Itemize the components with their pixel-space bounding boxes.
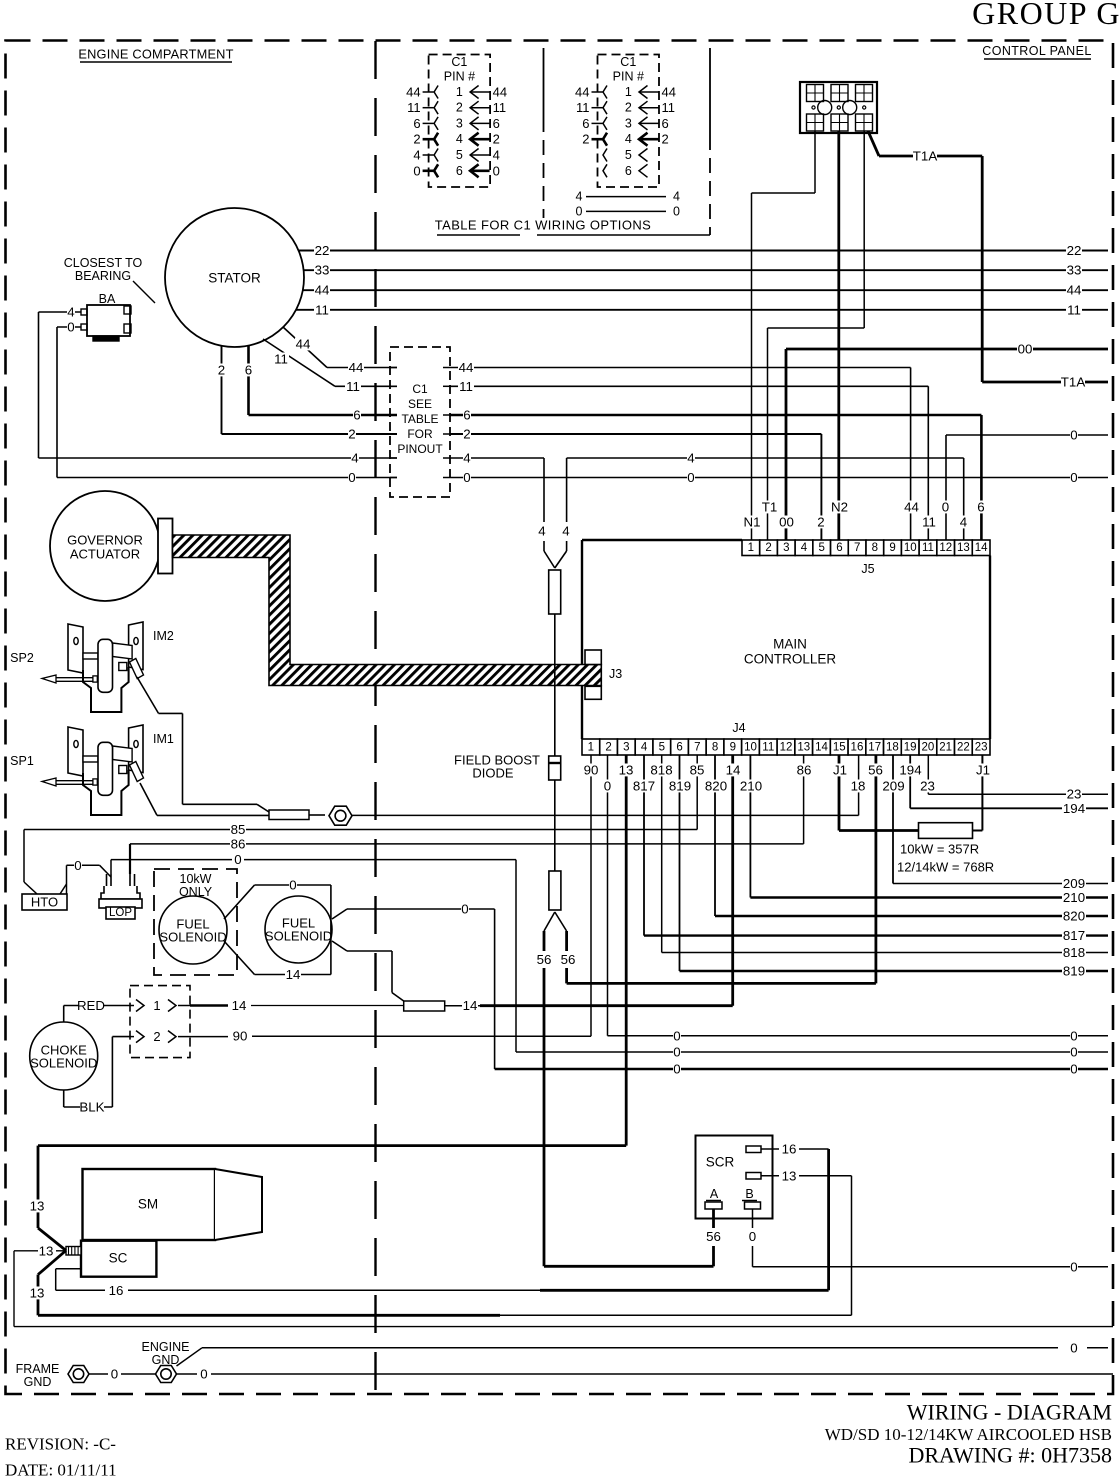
wire 33 stator to control panel <box>304 263 1108 278</box>
svg-text:4: 4 <box>562 524 569 539</box>
svg-text:5: 5 <box>456 148 463 162</box>
svg-text:44: 44 <box>575 85 589 100</box>
wire 0 SCR B to right edge <box>749 1209 1109 1274</box>
wire 6 stator <box>245 346 398 423</box>
svg-text:2: 2 <box>463 427 470 442</box>
svg-text:2: 2 <box>153 1029 160 1044</box>
wire IM2 lead <box>137 677 269 812</box>
starter contactor SC <box>81 1241 156 1277</box>
svg-text:12/14kW = 768R: 12/14kW = 768R <box>897 860 994 875</box>
wire 44 stator diagonal <box>283 327 397 375</box>
fuse F2 field boost lower <box>544 871 567 931</box>
svg-text:14: 14 <box>286 967 301 982</box>
svg-text:11: 11 <box>459 379 473 394</box>
svg-text:BLK: BLK <box>79 1100 104 1115</box>
svg-text:SP2: SP2 <box>10 651 34 665</box>
svg-text:4: 4 <box>456 132 463 146</box>
svg-text:1: 1 <box>456 85 463 99</box>
svg-text:PIN #: PIN # <box>613 70 644 84</box>
svg-text:12: 12 <box>780 742 793 754</box>
svg-text:44: 44 <box>296 337 311 352</box>
field boost diode D1 <box>454 753 561 872</box>
wire 11 stator to control panel <box>296 302 1108 317</box>
svg-text:14: 14 <box>463 998 478 1013</box>
wire 85 drop to HTO <box>24 830 37 895</box>
connector J5 pin row <box>742 540 990 576</box>
svg-text:GND: GND <box>24 1375 52 1389</box>
svg-text:2: 2 <box>662 132 669 147</box>
svg-text:1: 1 <box>588 742 594 754</box>
svg-text:90: 90 <box>584 763 599 778</box>
wire 22 stator to control panel <box>299 243 1108 258</box>
svg-text:209: 209 <box>882 779 904 794</box>
svg-text:11: 11 <box>315 302 329 317</box>
wire 0 frame-engine gnd <box>89 1367 156 1382</box>
svg-text:4: 4 <box>463 451 470 466</box>
svg-text:210: 210 <box>1063 890 1085 905</box>
svg-text:4: 4 <box>67 305 74 320</box>
wire 4 bypass (option 2) <box>575 190 680 204</box>
svg-text:11: 11 <box>274 352 288 367</box>
connector table C1 option 1 <box>405 55 508 188</box>
wire 0 to middle 0 line <box>516 860 1108 1060</box>
svg-text:86: 86 <box>797 763 812 778</box>
wire 90 choke pin2 <box>190 1036 228 1038</box>
svg-text:GOVERNOR: GOVERNOR <box>67 533 143 548</box>
svg-text:13: 13 <box>797 742 810 754</box>
svg-text:44: 44 <box>315 283 330 298</box>
wire 11 C1 to J5-11 <box>450 379 937 540</box>
svg-text:6: 6 <box>245 363 252 378</box>
svg-text:A: A <box>710 1187 719 1201</box>
svg-text:20: 20 <box>922 742 935 754</box>
svg-text:0: 0 <box>1070 470 1077 485</box>
svg-text:2: 2 <box>493 132 500 147</box>
svg-text:18: 18 <box>886 742 899 754</box>
svg-text:4: 4 <box>538 524 545 539</box>
svg-text:820: 820 <box>705 779 727 794</box>
svg-text:GROUP G: GROUP G <box>972 0 1120 31</box>
svg-text:J5: J5 <box>861 562 874 576</box>
wire N2 T1A to J5-6 <box>831 131 848 540</box>
svg-text:9: 9 <box>889 542 895 554</box>
svg-text:STATOR: STATOR <box>208 271 261 286</box>
svg-text:ENGINE: ENGINE <box>142 1340 190 1354</box>
svg-text:8: 8 <box>872 542 878 554</box>
wire 819 J4-6 to right edge <box>668 755 1108 979</box>
svg-text:11: 11 <box>922 515 936 530</box>
svg-text:2: 2 <box>413 132 420 147</box>
svg-text:56: 56 <box>537 952 552 967</box>
svg-text:SCR: SCR <box>706 1155 735 1170</box>
svg-text:MAIN: MAIN <box>773 637 807 652</box>
svg-text:00: 00 <box>1018 342 1033 357</box>
svg-text:1: 1 <box>625 85 632 99</box>
svg-text:2: 2 <box>218 363 225 378</box>
svg-text:23: 23 <box>1067 787 1082 802</box>
svg-text:0: 0 <box>576 204 583 218</box>
svg-text:J4: J4 <box>732 721 745 735</box>
hatched harness to J3 <box>173 535 602 686</box>
governor actuator <box>50 491 173 601</box>
svg-text:N2: N2 <box>831 500 848 515</box>
wire J1 J4-15 to resistor <box>832 755 919 831</box>
svg-text:IM2: IM2 <box>153 629 174 643</box>
wire 6 C1 to J5-14 <box>450 408 985 541</box>
stator <box>165 208 304 347</box>
svg-text:SC: SC <box>109 1251 128 1266</box>
svg-text:11: 11 <box>407 100 421 115</box>
svg-text:T1A: T1A <box>1061 375 1086 390</box>
connector C1 (see table for pinout) <box>390 347 450 497</box>
wire 4 C1 to field boost and J5-13 <box>450 451 968 541</box>
SCR module <box>696 1136 773 1219</box>
svg-text:10kW: 10kW <box>180 872 212 886</box>
svg-text:4: 4 <box>673 190 680 204</box>
svg-text:T1A: T1A <box>913 149 938 164</box>
ignition module IM1 <box>10 725 174 815</box>
svg-text:0: 0 <box>493 163 500 178</box>
svg-text:SM: SM <box>138 1197 158 1212</box>
wire N1 T1A to J5-1 <box>744 131 816 540</box>
connector table C1 option 2 <box>574 55 677 188</box>
svg-text:4: 4 <box>687 451 694 466</box>
svg-text:10kW = 357R: 10kW = 357R <box>900 842 979 857</box>
10kW only dashed box <box>154 869 237 975</box>
svg-text:14: 14 <box>975 542 988 554</box>
svg-text:J3: J3 <box>609 667 622 681</box>
svg-text:5: 5 <box>625 148 632 162</box>
svg-text:4: 4 <box>960 515 967 530</box>
svg-text:0: 0 <box>234 852 241 867</box>
svg-text:WIRING - DIAGRAM: WIRING - DIAGRAM <box>907 1400 1112 1425</box>
svg-text:194: 194 <box>1063 801 1085 816</box>
wire 4 pair to field boost <box>538 458 570 568</box>
connector block T1A <box>800 82 877 133</box>
svg-text:RED: RED <box>77 998 105 1013</box>
svg-text:SEE: SEE <box>408 397 432 411</box>
svg-text:0: 0 <box>67 320 74 335</box>
wire IM1 lead <box>140 783 269 815</box>
svg-text:4: 4 <box>493 148 500 163</box>
svg-text:16: 16 <box>109 1283 124 1298</box>
svg-text:33: 33 <box>1067 263 1082 278</box>
wire 13 loop starter <box>29 1146 852 1316</box>
wire 210 J4-10 to right edge <box>739 755 1108 905</box>
table divider left <box>543 48 545 218</box>
connector J4 pin row <box>582 721 990 755</box>
wire 56 to SCR A <box>536 931 714 1266</box>
titleblock revision/date <box>5 1435 117 1477</box>
starter motor SM <box>83 1169 263 1240</box>
svg-text:2: 2 <box>456 101 463 115</box>
svg-text:2: 2 <box>348 427 355 442</box>
svg-text:C1: C1 <box>620 55 636 69</box>
svg-text:819: 819 <box>1063 964 1085 979</box>
svg-text:0: 0 <box>1070 1340 1077 1355</box>
wire 16 SC to SCR <box>56 1269 829 1298</box>
fuse F3 choke/fuel 14 <box>404 1001 445 1011</box>
svg-text:C1: C1 <box>451 55 467 69</box>
svg-text:4: 4 <box>625 132 632 146</box>
svg-text:4: 4 <box>801 542 808 554</box>
svg-text:0: 0 <box>1070 428 1077 443</box>
svg-text:56: 56 <box>868 763 883 778</box>
svg-text:11: 11 <box>493 100 507 115</box>
svg-text:0: 0 <box>673 1029 680 1044</box>
svg-text:SOLENOID: SOLENOID <box>159 930 226 945</box>
wire 0 engine gnd upper to right <box>177 1340 1109 1366</box>
fuse F1 field boost <box>549 570 561 756</box>
svg-text:13: 13 <box>619 763 634 778</box>
wire 2 C1 to J5-5 <box>450 427 825 541</box>
svg-text:10: 10 <box>744 742 757 754</box>
svg-text:CLOSEST TO: CLOSEST TO <box>64 256 143 270</box>
svg-text:17: 17 <box>868 742 881 754</box>
svg-text:0: 0 <box>348 470 355 485</box>
svg-text:11: 11 <box>346 379 360 394</box>
svg-text:44: 44 <box>349 360 364 375</box>
svg-text:FOR: FOR <box>407 427 433 441</box>
svg-text:DRAWING #: 0H7358: DRAWING #: 0H7358 <box>908 1443 1112 1468</box>
svg-text:ACTUATOR: ACTUATOR <box>70 547 140 562</box>
svg-text:4: 4 <box>576 190 583 204</box>
svg-text:44: 44 <box>662 85 676 100</box>
wire 0 engine gnd lower to right <box>177 1367 1114 1382</box>
frame ground <box>16 1362 89 1389</box>
svg-text:J1: J1 <box>976 763 990 778</box>
svg-text:SOLENOID: SOLENOID <box>265 929 332 944</box>
svg-text:44: 44 <box>1067 283 1082 298</box>
svg-text:0: 0 <box>74 858 81 873</box>
svg-text:ENGINE COMPARTMENT: ENGINE COMPARTMENT <box>78 47 233 62</box>
wire 13 J4-3 to starter <box>38 755 634 1146</box>
svg-text:8: 8 <box>712 742 718 754</box>
wire BLK choke <box>64 1037 130 1115</box>
svg-text:2: 2 <box>765 542 771 554</box>
svg-text:85: 85 <box>231 822 246 837</box>
svg-text:3: 3 <box>783 542 789 554</box>
svg-text:13: 13 <box>30 1199 45 1214</box>
svg-text:6: 6 <box>463 408 470 423</box>
svg-text:DATE: 01/11/11: DATE: 01/11/11 <box>5 1461 117 1477</box>
svg-text:IM1: IM1 <box>153 732 174 746</box>
wire 818 J4-5 to right edge <box>650 755 1109 960</box>
wire 0 BA to C1 <box>57 320 397 486</box>
svg-text:16: 16 <box>851 742 864 754</box>
svg-text:T1: T1 <box>762 500 778 515</box>
wire 2 stator <box>218 346 398 442</box>
svg-text:CONTROL PANEL: CONTROL PANEL <box>982 44 1091 58</box>
svg-text:22: 22 <box>315 243 330 258</box>
svg-text:PINOUT: PINOUT <box>397 442 443 456</box>
svg-text:1: 1 <box>748 542 754 554</box>
svg-text:0: 0 <box>687 470 694 485</box>
svg-text:2: 2 <box>582 132 589 147</box>
svg-text:TABLE FOR C1 WIRING OPTIONS: TABLE FOR C1 WIRING OPTIONS <box>435 218 651 233</box>
titleblock WIRING - DIAGRAM <box>825 1400 1112 1468</box>
main controller U1 <box>582 540 990 739</box>
wire 817 J4-4 to right edge <box>632 755 1108 943</box>
svg-text:819: 819 <box>669 779 691 794</box>
wire 13 SC terminal thin <box>14 1244 1113 1327</box>
svg-text:10: 10 <box>904 542 917 554</box>
svg-text:44: 44 <box>493 85 507 100</box>
svg-text:2: 2 <box>817 515 824 530</box>
svg-text:16: 16 <box>782 1142 797 1157</box>
svg-text:19: 19 <box>904 742 917 754</box>
svg-text:HTO: HTO <box>31 895 58 910</box>
svg-text:9: 9 <box>730 742 736 754</box>
svg-text:7: 7 <box>854 542 860 554</box>
svg-text:4: 4 <box>351 451 358 466</box>
svg-text:14: 14 <box>726 763 741 778</box>
svg-text:44: 44 <box>459 360 474 375</box>
svg-text:0: 0 <box>749 1229 756 1244</box>
terminal 13 striped connector <box>66 1247 81 1256</box>
svg-text:6: 6 <box>836 542 842 554</box>
wire 85 J4-7 to HTO <box>24 755 705 837</box>
ignition module IM2 <box>10 622 174 712</box>
svg-text:2: 2 <box>605 742 611 754</box>
svg-text:WD/SD 10-12/14KW AIRCOOLED HSB: WD/SD 10-12/14KW AIRCOOLED HSB <box>825 1425 1112 1444</box>
svg-text:23: 23 <box>920 779 935 794</box>
svg-text:DIODE: DIODE <box>472 766 514 781</box>
wire T1 T1A to J5-2 <box>762 131 865 540</box>
svg-text:0: 0 <box>673 204 680 218</box>
wire 0 FS2 to bottom 0 line <box>332 902 1108 1077</box>
svg-text:0: 0 <box>604 779 611 794</box>
wire 0 C1 to right edge <box>450 470 1108 485</box>
svg-text:14: 14 <box>815 742 828 754</box>
svg-text:TABLE: TABLE <box>401 412 438 426</box>
inline connector ignition <box>269 810 325 820</box>
wire 90 J4-1 to choke <box>232 755 599 1044</box>
resistor R1 (10kW=357R, 12/14kW=768R) <box>897 823 994 875</box>
svg-text:817: 817 <box>633 779 655 794</box>
svg-text:6: 6 <box>493 116 500 131</box>
wire 209 J4-18 to right edge <box>882 755 1109 891</box>
wire 4 BA to C1 <box>39 305 398 466</box>
svg-text:22: 22 <box>957 742 970 754</box>
svg-text:0: 0 <box>463 470 470 485</box>
svg-text:23: 23 <box>975 742 988 754</box>
svg-text:6: 6 <box>662 116 669 131</box>
svg-text:818: 818 <box>1063 945 1085 960</box>
svg-text:J1: J1 <box>833 763 847 778</box>
svg-text:3: 3 <box>623 742 629 754</box>
wire 14 J4-9 to fuse <box>445 755 741 1013</box>
svg-text:44: 44 <box>406 85 420 100</box>
svg-text:21: 21 <box>939 742 952 754</box>
wire 18 J4-16 to ignition modules <box>352 755 866 815</box>
svg-text:0: 0 <box>461 902 468 917</box>
svg-text:13: 13 <box>39 1244 54 1259</box>
svg-text:22: 22 <box>1067 243 1082 258</box>
wire 44 C1 to J5-10 <box>450 360 920 540</box>
svg-text:N1: N1 <box>744 515 761 530</box>
svg-text:0: 0 <box>200 1367 207 1382</box>
svg-text:6: 6 <box>456 164 463 178</box>
svg-text:6: 6 <box>413 116 420 131</box>
svg-text:18: 18 <box>851 779 866 794</box>
svg-text:00: 00 <box>779 515 794 530</box>
svg-text:3: 3 <box>625 116 632 130</box>
svg-text:0: 0 <box>1070 1259 1077 1274</box>
svg-text:BEARING: BEARING <box>75 269 131 283</box>
svg-text:0: 0 <box>942 500 949 515</box>
svg-text:1: 1 <box>153 998 160 1013</box>
svg-text:0: 0 <box>289 878 296 893</box>
table caption <box>435 218 710 236</box>
svg-text:PIN #: PIN # <box>444 70 475 84</box>
wire J1 resistor to J4-23 <box>973 755 992 831</box>
title GROUP G <box>972 0 1120 31</box>
svg-text:SOLENOID: SOLENOID <box>30 1056 97 1071</box>
wire 56 SCR A <box>706 1209 722 1266</box>
svg-text:13: 13 <box>30 1286 45 1301</box>
svg-text:6: 6 <box>625 164 632 178</box>
fuel solenoid FS1 <box>159 896 227 964</box>
svg-text:194: 194 <box>899 763 921 778</box>
svg-text:0: 0 <box>1070 1029 1077 1044</box>
wire 14 choke pin1 <box>190 998 404 1013</box>
svg-text:C1: C1 <box>412 382 428 396</box>
svg-text:11: 11 <box>762 742 774 754</box>
svg-text:818: 818 <box>650 763 672 778</box>
svg-text:4: 4 <box>641 742 648 754</box>
svg-text:817: 817 <box>1063 928 1085 943</box>
svg-text:BA: BA <box>99 292 116 306</box>
svg-text:12: 12 <box>939 542 952 554</box>
svg-text:0: 0 <box>1070 1045 1077 1060</box>
svg-text:5: 5 <box>819 542 825 554</box>
wire 194 J4-19 to right edge <box>899 755 1109 816</box>
table divider right <box>709 48 711 235</box>
svg-text:14: 14 <box>232 998 247 1013</box>
svg-text:0: 0 <box>413 163 420 178</box>
svg-text:33: 33 <box>315 263 330 278</box>
svg-text:86: 86 <box>231 836 246 851</box>
svg-text:0: 0 <box>673 1062 680 1077</box>
wire 23 J4-20 to right edge <box>920 755 1109 802</box>
wire 820 J4-8 to right edge <box>704 755 1108 924</box>
svg-text:6: 6 <box>977 500 984 515</box>
header ENGINE COMPARTMENT <box>78 47 233 63</box>
wire T1A to right edge <box>868 131 1108 390</box>
svg-text:4: 4 <box>413 148 420 163</box>
wire 56 to J4-17 <box>560 755 884 983</box>
wire 14 FS2 to fuse <box>332 941 404 1001</box>
svg-text:3: 3 <box>456 116 463 130</box>
wire 0 bypass (option 2) <box>575 204 680 218</box>
svg-text:209: 209 <box>1063 876 1085 891</box>
svg-text:0: 0 <box>111 1367 118 1382</box>
svg-text:6: 6 <box>582 116 589 131</box>
wire 11 stator diagonal <box>263 339 397 394</box>
connector choke (dashed) <box>130 986 190 1058</box>
connector J3 <box>585 650 622 699</box>
wire 16 SCR <box>761 1142 829 1291</box>
fuel solenoid FS2 <box>265 896 332 963</box>
wire 0 LOP to right <box>111 852 516 874</box>
svg-text:85: 85 <box>690 763 705 778</box>
wire 0 solenoids <box>224 878 331 983</box>
svg-text:6: 6 <box>353 408 360 423</box>
svg-text:11: 11 <box>922 542 934 554</box>
svg-text:44: 44 <box>904 500 919 515</box>
wire 86 J4-13 to LOP <box>130 755 812 851</box>
